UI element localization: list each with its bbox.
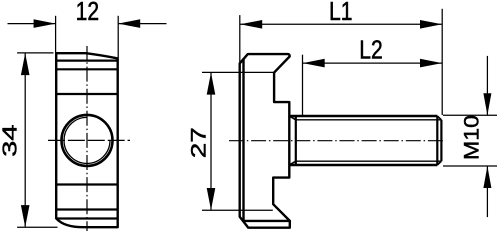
side view: thread runout line at head bbox=[295, 116, 297, 165]
left view: horizontal centerline bbox=[48, 139, 130, 141]
dimension L1: dimension line with inside arrows pointing out bbox=[240, 23, 442, 25]
dimension L2: extension line bbox=[302, 55, 304, 116]
left view: T-head front outline bbox=[56, 53, 117, 227]
svg-text:L2: L2 bbox=[359, 34, 383, 64]
left view: shaft thread circle (major dia) bbox=[62, 115, 113, 166]
side view: end chamfer diagonals bbox=[437, 116, 441, 165]
left view: thread root 3/4 arc bbox=[64, 117, 110, 163]
side view: shaft thread crest lines bbox=[289, 116, 437, 165]
side view: head-side chamfer diagonals bbox=[289, 116, 296, 165]
side view: head chamfer far edge (horizontal) bbox=[244, 220, 290, 222]
dimension 27: dimension line with inside arrows pointing out bbox=[210, 73, 212, 210]
side view: thread root lines bbox=[296, 120, 442, 161]
svg-text:27: 27 bbox=[187, 127, 211, 158]
dimension L1: extension lines bbox=[240, 9, 442, 115]
svg-text:L1: L1 bbox=[329, 0, 353, 26]
svg-text:12: 12 bbox=[76, 0, 100, 26]
side view: end face bbox=[440, 120, 442, 161]
side view: shaft centerline bbox=[229, 140, 445, 142]
dimension 12: dimension line with outside arrows bbox=[8, 23, 167, 25]
side view: end chamfer line bbox=[436, 116, 438, 165]
svg-text:M10: M10 bbox=[460, 115, 483, 160]
dimension 34: dimension line with inside arrows pointing out bbox=[24, 53, 26, 227]
dimension M10: extension lines bbox=[443, 115, 497, 166]
side view: T-head profile outline bbox=[240, 54, 290, 228]
svg-text:34: 34 bbox=[0, 124, 21, 157]
dimension 34: extension lines bbox=[17, 53, 57, 227]
dimension L2: dimension line with inside arrows pointing out bbox=[303, 62, 443, 64]
dimension 27: extension lines bbox=[202, 72, 274, 210]
left view: vertical centerline bbox=[86, 46, 88, 231]
dimension M10: dimension line with outside arrows bbox=[486, 56, 488, 217]
left view: groove edge lines bbox=[56, 61, 117, 219]
dimension 12: extension lines bbox=[56, 16, 119, 58]
side view: head chamfer far edge (vertical) bbox=[242, 59, 244, 221]
